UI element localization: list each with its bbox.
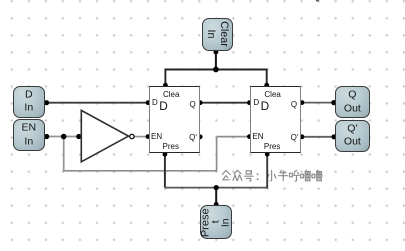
pin dot latch2 Q' xyxy=(300,134,305,139)
pin dot latch1 Pres xyxy=(163,152,168,157)
input pin D In xyxy=(13,86,45,118)
output pin Q' Out xyxy=(335,120,369,152)
pin dot latch1 EN xyxy=(146,134,151,139)
top edge artifact xyxy=(316,0,319,2)
pin dot Q' Out input xyxy=(331,134,336,139)
pin dot D In output xyxy=(44,100,49,105)
wire Clear to latch1 Clea xyxy=(164,69,166,86)
wire latch2 Q to Q Out xyxy=(302,102,334,104)
pin dot latch2 Clea xyxy=(264,83,269,88)
pin dot latch2 Pres xyxy=(265,152,270,157)
latch U3 label Clea xyxy=(264,90,280,99)
pin dot latch2 Q xyxy=(300,100,305,105)
D latch U3 box xyxy=(250,86,301,154)
wire latch2 Q' to Q' Out xyxy=(302,136,334,138)
latch U3 label Pres xyxy=(264,142,280,151)
output pin Q Out xyxy=(335,86,369,118)
pin dot Q Out input xyxy=(331,100,336,105)
pin dot Clear In output xyxy=(214,50,219,55)
pin dot inverter input xyxy=(76,134,81,139)
latch U2 label Pres xyxy=(163,142,179,151)
wire Clear horizontal xyxy=(165,69,266,71)
pin dot Preset In output xyxy=(214,202,219,207)
latch U3 pin label Q' xyxy=(291,133,299,142)
input pin Preset In xyxy=(200,205,232,239)
junction EN node xyxy=(61,134,67,140)
wire EN branch down xyxy=(63,137,65,171)
pin dot EN In output xyxy=(44,134,49,139)
latch U2 pin label EN xyxy=(151,132,162,141)
wire latch1 Q to latch2 D xyxy=(200,102,249,104)
latch U2 big D xyxy=(159,100,168,113)
wire EN branch up xyxy=(216,137,218,172)
wire inverter output to latch1 EN xyxy=(134,136,148,138)
input pin EN In xyxy=(13,119,45,151)
latch U2 pin label Q xyxy=(189,100,195,109)
pin dot latch1 Q xyxy=(198,100,203,105)
wire Clear to latch2 Clea xyxy=(266,69,268,86)
input pin Clear In xyxy=(202,18,233,51)
latch U2 pin label D xyxy=(152,98,158,107)
latch U3 pin label EN xyxy=(252,132,263,141)
D latch U2 box xyxy=(149,86,200,154)
wire EN In to inverter input xyxy=(47,136,79,138)
latch U2 pin label Q' xyxy=(189,133,197,142)
wire EN branch across xyxy=(63,170,217,172)
junction Preset node xyxy=(214,185,219,190)
wire latch2 Pres down xyxy=(266,154,268,189)
watermark 公众号：小牛呼噜噜 xyxy=(222,170,322,181)
wire Pres horizontal xyxy=(165,187,267,189)
pin dot latch1 Clea xyxy=(163,83,168,88)
pin dot latch2 D xyxy=(247,100,252,105)
wire latch1 Pres down xyxy=(164,154,166,188)
wire Clear In pin down xyxy=(215,52,217,70)
wire D In to latch1 D xyxy=(47,102,148,104)
junction Clear node xyxy=(213,67,219,73)
pin dot latch1 Q' xyxy=(198,134,203,139)
pin dot latch2 EN xyxy=(247,134,252,139)
latch U3 big D xyxy=(261,100,270,113)
wire Preset In pin up xyxy=(215,188,217,205)
pin dot latch1 D xyxy=(146,100,151,105)
wire EN branch to latch2 EN xyxy=(217,136,250,138)
latch U3 pin label Q xyxy=(291,100,297,109)
latch U2 label Clea xyxy=(163,90,179,99)
inverter gate U1 xyxy=(81,110,134,161)
latch U3 pin label D xyxy=(253,98,259,107)
